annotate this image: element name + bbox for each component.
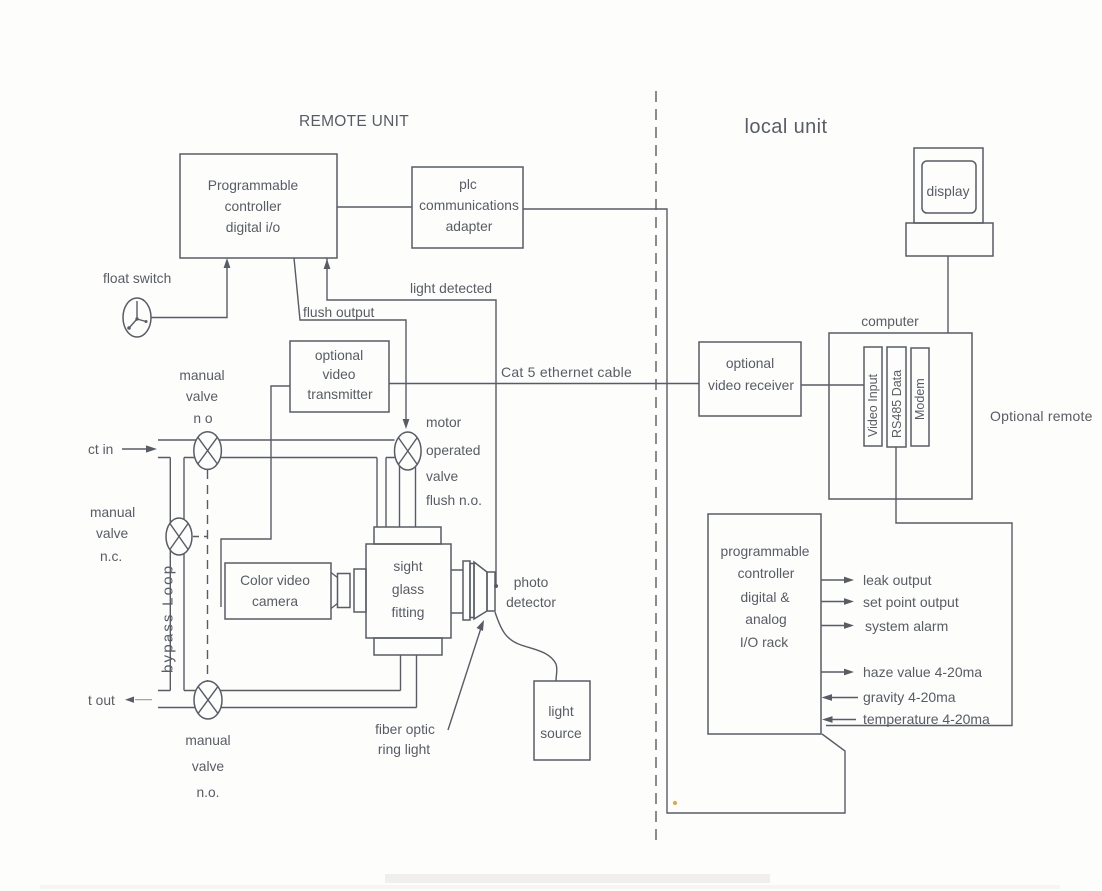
svg-text:communications: communications [419, 198, 519, 213]
svg-text:temperature 4-20ma: temperature 4-20ma [863, 711, 990, 727]
card Modem [911, 348, 929, 446]
svg-text:flush output: flush output [303, 305, 375, 320]
svg-text:motor: motor [426, 415, 462, 430]
sight glass fitting body [366, 544, 451, 638]
svg-text:bypass Loop: bypass Loop [160, 564, 177, 673]
svg-text:valve: valve [96, 526, 129, 541]
svg-text:video: video [323, 367, 356, 382]
pipe sight glass bottom to outlet [401, 655, 417, 708]
pipe outlet upper line [158, 690, 401, 692]
box computer [829, 333, 972, 499]
svg-text:controller: controller [738, 566, 795, 581]
valve motor operated [395, 432, 422, 470]
svg-text:ring light: ring light [378, 742, 430, 757]
svg-text:photo: photo [514, 575, 549, 590]
box I/O rack programmable controller [708, 514, 821, 734]
svg-text:operated: operated [426, 443, 480, 458]
arrow outlet [125, 697, 134, 703]
arrow system alarm [821, 625, 845, 627]
svg-text:digital i/o: digital i/o [226, 220, 281, 235]
svg-text:ct in: ct in [88, 442, 113, 457]
box plc communications adapter [412, 167, 523, 248]
wire float switch to U1 [151, 262, 227, 318]
svg-text:manual: manual [90, 505, 135, 520]
stubs to photo detector [451, 570, 463, 613]
svg-text:Optional remote: Optional remote [990, 408, 1093, 424]
svg-text:fiber optic: fiber optic [375, 722, 435, 737]
arrow set point output [821, 601, 845, 603]
wire light detected photo detector to U1 [327, 258, 496, 588]
wire transmitter to camera [221, 386, 290, 607]
svg-text:Programmable: Programmable [208, 178, 299, 193]
camera lens [331, 573, 338, 609]
svg-text:n o: n o [193, 411, 213, 426]
arrow haze value [821, 671, 845, 673]
pipe outlet lower line [158, 707, 417, 709]
card Video Input [864, 347, 882, 446]
wire U1 to plc adapter [337, 206, 412, 208]
svg-text:RS485 Data: RS485 Data [890, 370, 904, 438]
svg-text:I/O rack: I/O rack [740, 635, 788, 650]
svg-text:valve: valve [186, 389, 219, 404]
svg-text:Video Input: Video Input [866, 373, 880, 437]
svg-text:analog: analog [745, 612, 786, 627]
svg-text:Cat 5 ethernet cable: Cat 5 ethernet cable [501, 364, 632, 380]
svg-text:Modem: Modem [913, 378, 927, 420]
svg-text:manual: manual [179, 368, 224, 383]
svg-text:leak output: leak output [863, 572, 932, 588]
junction at photo detector [494, 584, 498, 588]
svg-text:light: light [548, 704, 573, 719]
svg-text:computer: computer [861, 314, 919, 329]
card RS485 Data [887, 347, 906, 447]
dashed bypass center line [207, 470, 209, 681]
cable photo detector to light source [495, 612, 557, 681]
pipe inlet upper line [158, 439, 395, 441]
monitor base [906, 223, 993, 256]
photo detector front element [487, 572, 495, 611]
box color video camera [225, 563, 331, 619]
wire Cat 5 ethernet transmitter to receiver [389, 383, 699, 385]
photo detector assembly [463, 561, 470, 620]
svg-text:controller: controller [225, 199, 282, 214]
svg-text:glass: glass [392, 582, 424, 597]
valve manual n.o. bottom [194, 681, 222, 719]
svg-text:REMOTE UNIT: REMOTE UNIT [299, 113, 409, 130]
svg-text:system alarm: system alarm [865, 618, 948, 634]
pipe B motor valve to sight glass top [400, 461, 416, 527]
valve manual n.c. [166, 518, 192, 555]
scan artifact orange dot [673, 801, 677, 805]
svg-text:sight: sight [393, 559, 422, 574]
svg-text:source: source [540, 726, 582, 741]
svg-text:set point output: set point output [863, 594, 959, 610]
wire display to computer [947, 256, 949, 333]
dashed separator line [655, 91, 657, 840]
svg-text:n.c.: n.c. [100, 549, 122, 564]
svg-text:digital &: digital & [740, 590, 789, 605]
svg-text:camera: camera [252, 594, 298, 609]
svg-text:adapter: adapter [446, 219, 493, 234]
svg-text:transmitter: transmitter [307, 387, 373, 402]
svg-text:fitting: fitting [392, 605, 425, 620]
pipe bypass right wall [183, 458, 185, 691]
svg-text:detector: detector [506, 595, 556, 610]
dashed stub n.c. valve [193, 536, 207, 538]
arrow inlet [122, 448, 148, 450]
wire flush output U1 to motor valve [294, 258, 406, 424]
svg-text:plc: plc [459, 177, 477, 192]
pipe bypass left wall [169, 458, 171, 691]
svg-text:display: display [927, 184, 970, 199]
svg-text:video receiver: video receiver [708, 378, 794, 393]
svg-text:optional: optional [726, 356, 774, 371]
svg-text:t out: t out [88, 693, 115, 708]
svg-text:manual: manual [185, 733, 230, 748]
scan smudge bottom [385, 874, 770, 883]
monitor screen [922, 161, 976, 213]
wire RS485 to temperature input [826, 447, 1012, 726]
sight glass left flange [354, 569, 366, 612]
box light source [534, 681, 590, 760]
box optional video transmitter [290, 341, 389, 412]
svg-text:n.o.: n.o. [196, 785, 219, 800]
svg-text:programmable: programmable [721, 544, 810, 559]
float switch symbol [123, 298, 151, 337]
photo detector cone [474, 562, 487, 619]
sight glass bottom flange [374, 638, 442, 655]
pipe inlet lower line segments [158, 457, 395, 459]
arrow leak output [821, 579, 845, 581]
pipe A to sight glass top [377, 458, 386, 528]
svg-text:haze value 4-20ma: haze value 4-20ma [863, 664, 982, 680]
valve manual n.o. top [194, 432, 222, 470]
wire receiver to computer video input [801, 384, 864, 386]
box optional video receiver [699, 342, 801, 416]
box U1 programmable controller digital i/o [180, 154, 337, 258]
svg-text:local unit: local unit [745, 116, 828, 138]
arrow temperature input [831, 719, 856, 721]
svg-text:valve: valve [192, 759, 225, 774]
wire plc adapter to local I/O rack (long loop) [523, 209, 845, 813]
svg-text:flush n.o.: flush n.o. [426, 493, 482, 508]
arrow gravity input [830, 697, 858, 699]
monitor display outer [914, 148, 983, 223]
svg-text:optional: optional [315, 348, 363, 363]
svg-text:gravity 4-20ma: gravity 4-20ma [863, 689, 956, 705]
svg-text:light detected: light detected [410, 281, 492, 296]
svg-text:Color video: Color video [240, 573, 310, 588]
sight glass top flange [374, 527, 441, 544]
svg-text:float switch: float switch [103, 271, 171, 286]
svg-text:valve: valve [426, 469, 459, 484]
pointer arrow fiber optic ring light [448, 628, 481, 730]
